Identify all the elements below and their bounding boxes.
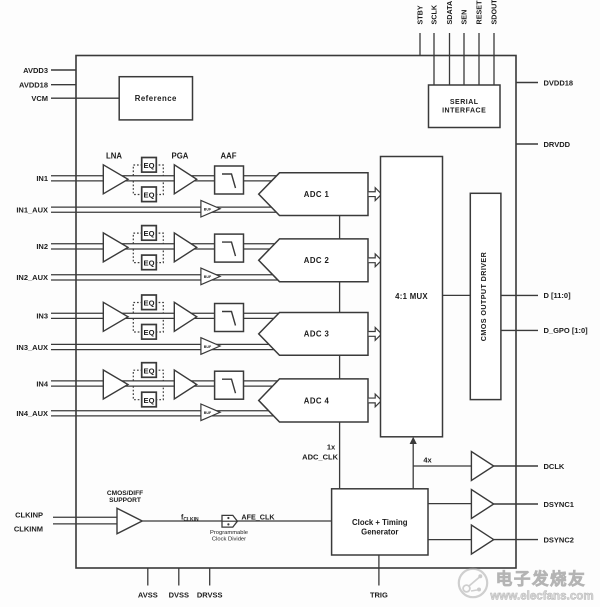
equalizer EQ upper ch1 (142, 158, 157, 173)
wire IN2 differential pair (51, 243, 292, 245)
anti-aliasing filter AAF ch3 (215, 304, 244, 332)
EQ bypass dashed loop upper ch4 (133, 370, 163, 381)
svg-text:SERIAL: SERIAL (450, 99, 479, 106)
EQ bypass dashed loop upper ch3 (133, 303, 163, 314)
anti-aliasing filter AAF ch4 (215, 371, 244, 399)
aux buffer BUF ch3 (201, 338, 220, 355)
wire IN4 differential pair (51, 380, 292, 382)
anti-aliasing filter AAF ch2 (215, 234, 244, 262)
svg-text:DVDD18: DVDD18 (544, 78, 574, 87)
pin AVDD3 (51, 69, 76, 71)
ADC 4 (259, 379, 368, 422)
svg-text:CLKINM: CLKINM (14, 524, 43, 533)
EQ bypass dashed loop lower ch2 (133, 249, 163, 263)
4:1 MUX (381, 157, 443, 437)
svg-text:IN4: IN4 (36, 379, 49, 388)
svg-text:IN2_AUX: IN2_AUX (16, 273, 48, 282)
PGA amplifier ch2 (174, 233, 196, 262)
svg-text:Clock + Timing: Clock + Timing (352, 518, 408, 527)
pin SDATA (449, 33, 451, 85)
EQ bypass dashed loop lower ch4 (133, 386, 163, 400)
CMOS output driver (470, 193, 501, 399)
svg-text:电子发烧友: 电子发烧友 (496, 569, 587, 589)
LNA amplifier ch2 (103, 233, 128, 262)
svg-text:SDATA: SDATA (445, 1, 454, 25)
svg-text:SCLK: SCLK (430, 4, 439, 24)
svg-text:EQ: EQ (144, 366, 155, 375)
svg-text:IN2: IN2 (36, 242, 48, 251)
svg-text:1x: 1x (327, 443, 336, 452)
svg-text:BUF: BUF (204, 345, 212, 349)
wire IN2_AUX differential pair (51, 274, 285, 276)
reference block (119, 77, 192, 120)
pin DSYNC2 (494, 539, 538, 541)
wire IN3 differential pair (51, 312, 292, 314)
svg-text:ADC 1: ADC 1 (304, 190, 330, 199)
pin SCLK (433, 33, 435, 85)
EQ bypass dashed loop lower ch1 (133, 181, 163, 195)
equalizer EQ lower ch3 (142, 325, 157, 340)
svg-text:CMOS OUTPUT DRIVER: CMOS OUTPUT DRIVER (479, 251, 488, 341)
PGA amplifier ch3 (174, 302, 196, 331)
svg-text:ADC 4: ADC 4 (304, 396, 330, 405)
pin DVSS (178, 568, 180, 586)
LNA amplifier ch3 (103, 302, 128, 331)
ADC 2 (259, 239, 368, 282)
svg-text:IN3_AUX: IN3_AUX (16, 343, 48, 352)
clock + timing generator (332, 489, 428, 555)
svg-text:AVDD18: AVDD18 (19, 81, 48, 90)
wire CLKINM (53, 523, 117, 525)
wire IN4_AUX differential pair (51, 410, 285, 412)
pin D_GPO [1:0] (501, 329, 538, 331)
ADC 3 (259, 313, 368, 356)
pin SEN (463, 33, 465, 85)
pin D [11:0] (501, 294, 538, 296)
aux buffer BUF ch2 (201, 268, 220, 285)
svg-text:BUF: BUF (204, 411, 212, 415)
svg-text:VCM: VCM (31, 94, 48, 103)
svg-text:AVSS: AVSS (138, 591, 158, 600)
wire clock generator to DSYNC2 buffer (428, 539, 471, 541)
EQ bypass dashed loop lower ch3 (133, 318, 163, 332)
equalizer EQ lower ch1 (142, 187, 157, 202)
pin STBY (419, 33, 421, 56)
svg-text:DSYNC2: DSYNC2 (544, 535, 574, 544)
equalizer EQ lower ch4 (142, 392, 157, 407)
svg-text:Clock Divider: Clock Divider (212, 537, 246, 543)
wire IN3_AUX differential pair (51, 343, 285, 345)
block arrow ADC2 output to MUX (369, 254, 382, 267)
svg-text:4:1 MUX: 4:1 MUX (395, 292, 428, 301)
svg-text:Generator: Generator (361, 528, 398, 537)
svg-text:EQ: EQ (144, 396, 155, 405)
ADC 1 (259, 173, 368, 216)
svg-text:IN1: IN1 (36, 174, 48, 183)
svg-text:AAF: AAF (220, 152, 236, 161)
svg-text:EQ: EQ (144, 161, 155, 170)
svg-text:DVSS: DVSS (169, 591, 189, 600)
svg-text:CLKINP: CLKINP (15, 511, 43, 520)
svg-text:ADC 2: ADC 2 (304, 256, 330, 265)
pin TRIG / wire from clock generator (378, 555, 380, 586)
svg-text:LNA: LNA (106, 152, 122, 161)
svg-text:AFE_CLK: AFE_CLK (241, 513, 275, 522)
equalizer EQ upper ch4 (142, 363, 157, 378)
svg-text:INTERFACE: INTERFACE (442, 107, 486, 114)
svg-text:Reference: Reference (135, 94, 177, 103)
equalizer EQ upper ch3 (142, 295, 157, 310)
svg-text:EQ: EQ (144, 328, 155, 337)
svg-text:DSYNC1: DSYNC1 (544, 500, 574, 509)
aux buffer BUF ch4 (201, 404, 220, 421)
svg-text:D [11:0]: D [11:0] (544, 291, 572, 300)
svg-text:EQ: EQ (144, 229, 155, 238)
svg-text:www.elecfans.com: www.elecfans.com (489, 590, 593, 603)
svg-text:SUPPORT: SUPPORT (109, 497, 141, 504)
svg-text:ADC_CLK: ADC_CLK (302, 452, 338, 461)
chip boundary (76, 56, 516, 569)
wire 4x clock to MUX (412, 442, 414, 489)
pin VCM / wire to Reference (51, 97, 119, 99)
serial interface U-SPI (429, 85, 501, 128)
svg-text:EQ: EQ (144, 259, 155, 268)
pin AVSS (147, 568, 149, 586)
wire IN1_AUX differential pair (51, 206, 285, 208)
equalizer EQ upper ch2 (142, 226, 157, 241)
svg-text:AVDD3: AVDD3 (23, 66, 48, 75)
svg-text:EQ: EQ (144, 191, 155, 200)
pin DRVSS (209, 568, 211, 586)
svg-text:4x: 4x (423, 456, 432, 465)
svg-text:BUF: BUF (204, 275, 212, 279)
block arrow ADC4 output to MUX (369, 394, 382, 407)
aux buffer BUF ch1 (201, 200, 220, 217)
svg-text:IN1_AUX: IN1_AUX (16, 206, 48, 215)
svg-text:IN4_AUX: IN4_AUX (16, 409, 48, 418)
watermark elecfans logo (459, 569, 487, 597)
clock input buffer (CMOS/DIFF support) (117, 508, 142, 533)
svg-text:STBY: STBY (416, 5, 425, 24)
pin AVDD18 (51, 84, 76, 86)
DSYNC1 output buffer (471, 490, 493, 519)
svg-text:SDOUT: SDOUT (490, 0, 499, 25)
pin DVDD18 (516, 82, 538, 84)
svg-text:TRIG: TRIG (370, 591, 388, 600)
block arrow ADC3 output to MUX (369, 328, 382, 341)
pin RESET (478, 33, 480, 85)
wire IN1 differential pair (51, 175, 292, 177)
programmable clock divider (222, 515, 237, 527)
svg-text:DCLK: DCLK (544, 462, 565, 471)
svg-text:ADC 3: ADC 3 (304, 330, 330, 339)
anti-aliasing filter AAF ch1 (215, 166, 244, 194)
LNA amplifier ch1 (103, 165, 128, 194)
svg-text:EQ: EQ (144, 299, 155, 308)
pin DCLK (494, 465, 538, 467)
DCLK output buffer (471, 452, 493, 481)
LNA amplifier ch4 (103, 370, 128, 399)
DSYNC2 output buffer (471, 525, 493, 554)
wire ADC_CLK 1x vertical (339, 180, 341, 489)
wire MUX to CMOS output driver (443, 294, 471, 296)
svg-text:CMOS/DIFF: CMOS/DIFF (107, 490, 143, 497)
PGA amplifier ch4 (174, 370, 196, 399)
EQ bypass dashed loop upper ch1 (133, 165, 163, 176)
wire clock generator to DSYNC1 buffer (428, 503, 471, 505)
svg-text:RESET: RESET (475, 0, 484, 25)
svg-text:Programmable: Programmable (210, 530, 248, 536)
block arrow ADC1 output to MUX (369, 188, 382, 201)
svg-text:PGA: PGA (172, 152, 189, 161)
pin SDOUT (493, 33, 495, 85)
svg-text:DRVDD: DRVDD (544, 140, 571, 149)
svg-text:DRVSS: DRVSS (197, 591, 223, 600)
wire AFE_CLK (142, 520, 331, 522)
svg-text:SEN: SEN (460, 10, 469, 25)
wire 4x branch to DCLK buffer (413, 465, 471, 467)
wire CLKINP (53, 516, 117, 518)
svg-text:D_GPO [1:0]: D_GPO [1:0] (544, 326, 589, 335)
PGA amplifier ch1 (174, 165, 196, 194)
pin DSYNC1 (494, 503, 538, 505)
svg-text:IN3: IN3 (36, 312, 48, 321)
EQ bypass dashed loop upper ch2 (133, 233, 163, 244)
pin DRVDD (516, 143, 538, 145)
svg-text:BUF: BUF (204, 208, 212, 212)
equalizer EQ lower ch2 (142, 255, 157, 270)
